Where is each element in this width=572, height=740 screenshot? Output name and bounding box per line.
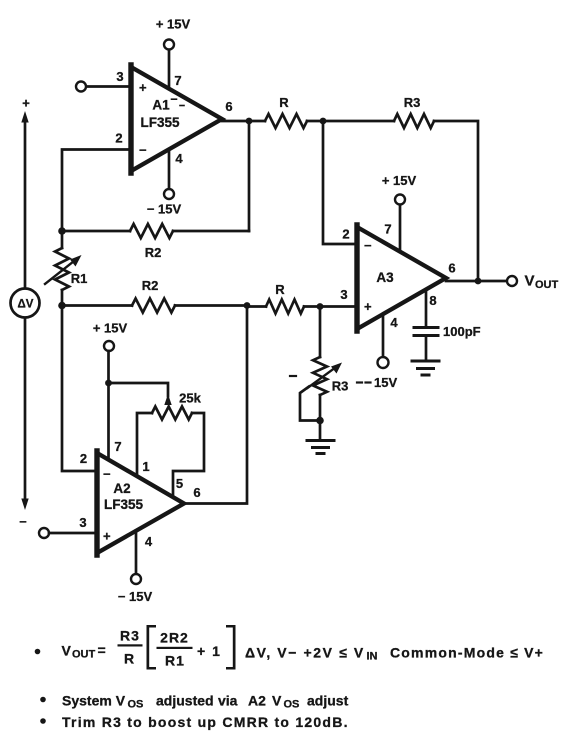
svg-text:R3: R3: [404, 95, 421, 110]
terminal +15V (A2): [104, 341, 114, 351]
svg-text:6: 6: [225, 99, 232, 114]
svg-text:adjusted: adjusted: [156, 693, 214, 709]
wire: [135, 531, 138, 575]
terminal VOUT: [507, 276, 517, 286]
wire: [107, 351, 110, 460]
svg-text:R1: R1: [71, 271, 88, 286]
svg-text:System V: System V: [62, 693, 126, 709]
bullet 1: [35, 649, 41, 655]
resistor R2 (top): [62, 224, 249, 238]
svg-text:2: 2: [115, 131, 122, 146]
svg-text:V: V: [62, 643, 72, 659]
junction: [317, 303, 324, 310]
svg-text:OS: OS: [284, 699, 300, 711]
svg-text:25k: 25k: [179, 391, 201, 406]
svg-text:2R2: 2R2: [160, 630, 189, 646]
svg-text:1: 1: [142, 459, 149, 474]
svg-text:V: V: [525, 273, 535, 290]
junction: [58, 302, 66, 310]
wire: [21, 318, 28, 510]
svg-text:A2: A2: [113, 481, 130, 496]
wire: [62, 150, 131, 232]
svg-text:ΔV: ΔV: [18, 299, 34, 311]
svg-text:+: +: [103, 529, 111, 544]
svg-text:A3: A3: [376, 270, 394, 285]
svg-text:15V: 15V: [374, 375, 397, 390]
wire: [320, 305, 357, 308]
resistor R3 (feedback): [323, 114, 478, 281]
svg-text:6: 6: [448, 261, 455, 276]
capacitor C1 100pF: [414, 290, 438, 360]
svg-text:7: 7: [384, 222, 391, 237]
resistor R2 (bottom): [62, 299, 247, 313]
ground (trim pot): [307, 441, 334, 454]
op-amp A1: [131, 65, 222, 173]
svg-text:+ 15V: + 15V: [156, 17, 191, 32]
wire: [62, 306, 97, 472]
svg-text:− 15V: − 15V: [147, 202, 182, 217]
svg-text:R2: R2: [145, 245, 162, 260]
label VOUT: [525, 273, 559, 291]
svg-text:+: +: [139, 80, 147, 95]
terminal input (A2 pin 3): [39, 528, 49, 538]
potentiometer 25k: [137, 394, 204, 497]
svg-text:Common-Mode ≤ V+: Common-Mode ≤ V+: [390, 645, 544, 661]
svg-text:−: −: [139, 143, 147, 158]
note: System VOS adjusted via A2 VOS adjust: [62, 693, 349, 711]
svg-text:7: 7: [174, 73, 181, 88]
terminal −15V (A1): [164, 189, 174, 199]
svg-text:R3: R3: [332, 379, 349, 394]
wire: [21, 111, 28, 288]
junction: [316, 417, 324, 425]
resistor R (A1 out to A3 inv): [249, 114, 323, 128]
formula VOUT equation: [62, 625, 545, 670]
terminal −15V (A2): [131, 574, 141, 584]
op-amp A3: [357, 225, 446, 331]
svg-text:−: −: [364, 238, 372, 253]
svg-text:A1: A1: [152, 98, 170, 113]
junction: [244, 302, 251, 309]
svg-text:8: 8: [429, 293, 436, 308]
svg-text:OUT: OUT: [535, 279, 559, 291]
svg-text:A2: A2: [248, 693, 266, 709]
wire: [222, 120, 249, 123]
wire: [382, 314, 385, 357]
svg-text:R3: R3: [120, 628, 140, 644]
terminal +15V (A1): [164, 40, 174, 50]
wire: [184, 306, 247, 504]
svg-text:7: 7: [114, 439, 121, 454]
wire: [168, 149, 171, 189]
svg-text:4: 4: [145, 534, 153, 549]
junction: [475, 278, 482, 285]
junction: [105, 380, 112, 387]
svg-text:V: V: [272, 693, 282, 709]
svg-text:OS: OS: [128, 699, 144, 711]
op-amp A2: [97, 451, 184, 555]
svg-text:6: 6: [193, 485, 200, 500]
svg-text:LF355: LF355: [140, 115, 180, 130]
svg-text:R2: R2: [142, 278, 159, 293]
junction: [246, 118, 253, 125]
resistor R1 (variable): [45, 231, 82, 305]
svg-text:R: R: [275, 282, 285, 297]
svg-text:R: R: [279, 95, 289, 110]
source ΔV: [11, 289, 40, 318]
svg-text:−: −: [103, 467, 111, 482]
svg-text:3: 3: [340, 287, 347, 302]
svg-text:5: 5: [176, 476, 183, 491]
junction: [58, 227, 66, 235]
wire: [87, 85, 132, 88]
wire: [168, 50, 171, 89]
svg-text:3: 3: [79, 515, 86, 530]
svg-text:Trim R3 to boost up CMRR to 12: Trim R3 to boost up CMRR to 120dB.: [62, 714, 349, 730]
bullet 3: [40, 718, 46, 724]
svg-text:− 15V: − 15V: [118, 589, 153, 604]
svg-text:=: =: [98, 642, 106, 658]
svg-text:via: via: [218, 693, 238, 709]
terminal +15V (A3): [395, 195, 405, 205]
svg-text:ΔV, V− +2V ≤ V: ΔV, V− +2V ≤ V: [245, 645, 365, 661]
ground (capacitor): [412, 361, 439, 375]
resistor R3 (CMRR trim pot): [300, 307, 342, 422]
wire: [109, 383, 169, 396]
svg-text:–: –: [19, 514, 26, 529]
wire: [248, 121, 251, 231]
svg-text:OUT: OUT: [72, 649, 96, 661]
svg-text:IN: IN: [367, 651, 378, 663]
svg-text:2: 2: [342, 227, 349, 242]
svg-text:4: 4: [175, 151, 183, 166]
svg-text:adjust: adjust: [307, 693, 349, 709]
svg-text:+: +: [22, 96, 30, 111]
svg-text:R1: R1: [165, 653, 185, 669]
svg-text:+ 1: + 1: [197, 643, 221, 659]
bullet 2: [40, 697, 46, 703]
wire: [323, 121, 357, 244]
svg-text:R: R: [124, 651, 134, 667]
svg-text:+: +: [364, 299, 372, 314]
svg-text:3: 3: [116, 69, 123, 84]
wire: [319, 421, 322, 441]
svg-text:2: 2: [80, 451, 87, 466]
svg-text:4: 4: [390, 315, 398, 330]
svg-text:+ 15V: + 15V: [382, 173, 417, 188]
svg-text:100pF: 100pF: [443, 324, 481, 339]
junction: [320, 118, 327, 125]
wire: [399, 205, 402, 252]
wire: [49, 532, 97, 535]
terminal input (A1 pin 3): [76, 82, 86, 92]
resistor R (A2 out to A3 non-inv): [247, 300, 320, 314]
terminal −15V (A3): [378, 357, 389, 368]
svg-text:LF355: LF355: [104, 497, 144, 512]
svg-text:+ 15V: + 15V: [93, 321, 128, 336]
wire: [446, 280, 507, 283]
